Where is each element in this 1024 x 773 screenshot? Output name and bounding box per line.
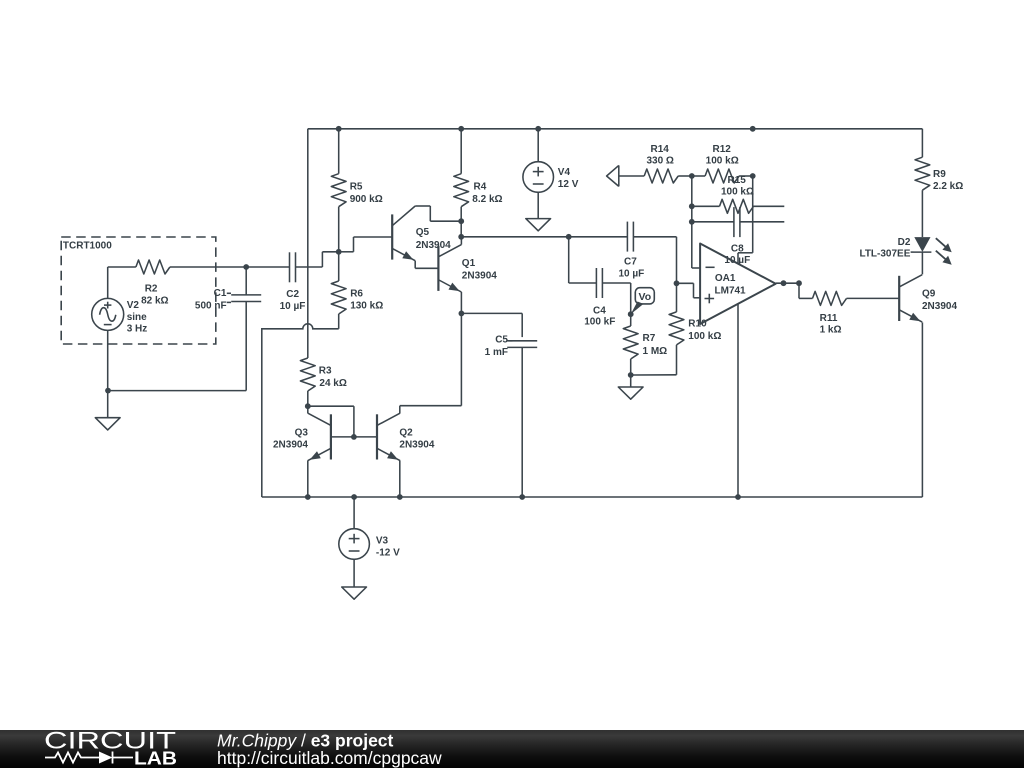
svg-text:R15: R15 xyxy=(728,175,747,186)
svg-text:100 kF: 100 kF xyxy=(584,317,615,328)
svg-text:C4: C4 xyxy=(593,306,606,317)
svg-text:2N3904: 2N3904 xyxy=(416,240,451,251)
svg-text:Q1: Q1 xyxy=(462,258,476,269)
svg-text:Q9: Q9 xyxy=(922,288,936,299)
svg-text:R9: R9 xyxy=(933,169,946,180)
svg-text:C5: C5 xyxy=(495,335,508,346)
svg-text:100 kΩ: 100 kΩ xyxy=(721,186,754,197)
svg-text:R11: R11 xyxy=(820,313,838,324)
svg-text:R5: R5 xyxy=(350,181,363,192)
svg-text:LAB: LAB xyxy=(134,748,177,769)
svg-text:V2: V2 xyxy=(127,300,140,311)
svg-text:Vo: Vo xyxy=(638,291,651,303)
svg-text:R12: R12 xyxy=(713,144,732,155)
svg-text:10 µF: 10 µF xyxy=(280,301,306,312)
svg-text:C2: C2 xyxy=(286,289,299,300)
svg-text:V3: V3 xyxy=(376,536,389,547)
svg-text:R4: R4 xyxy=(474,181,487,192)
svg-text:R7: R7 xyxy=(643,333,656,344)
svg-text:100 kΩ: 100 kΩ xyxy=(706,155,739,166)
svg-text:82 kΩ: 82 kΩ xyxy=(141,296,168,307)
svg-text:2.2 kΩ: 2.2 kΩ xyxy=(933,181,963,192)
svg-text:24 kΩ: 24 kΩ xyxy=(319,378,346,389)
svg-text:Q5: Q5 xyxy=(416,227,430,238)
svg-text:8.2 kΩ: 8.2 kΩ xyxy=(472,194,502,205)
svg-text:sine: sine xyxy=(127,312,147,323)
svg-text:1 MΩ: 1 MΩ xyxy=(643,346,668,357)
svg-text:R6: R6 xyxy=(350,288,363,299)
svg-text:Q3: Q3 xyxy=(295,428,309,439)
svg-text:R10: R10 xyxy=(688,319,707,330)
svg-text:OA1: OA1 xyxy=(715,273,736,284)
svg-text:500 nF: 500 nF xyxy=(195,300,227,311)
svg-text:330 Ω: 330 Ω xyxy=(646,155,673,166)
svg-text:2N3904: 2N3904 xyxy=(399,439,434,450)
svg-text:C7: C7 xyxy=(624,257,637,268)
svg-text:1 mF: 1 mF xyxy=(485,347,508,358)
svg-text:Q2: Q2 xyxy=(399,428,413,439)
svg-text:1 kΩ: 1 kΩ xyxy=(820,325,842,336)
svg-text:http://circuitlab.com/cpgpcaw: http://circuitlab.com/cpgpcaw xyxy=(217,748,442,768)
svg-text:LTL-307EE: LTL-307EE xyxy=(859,248,910,259)
svg-text:LM741: LM741 xyxy=(715,286,747,297)
svg-text:10 µF: 10 µF xyxy=(619,268,645,279)
svg-text:130 kΩ: 130 kΩ xyxy=(350,301,383,312)
svg-text:V4: V4 xyxy=(558,167,571,178)
svg-text:R2: R2 xyxy=(145,283,158,294)
svg-text:R14: R14 xyxy=(651,144,670,155)
svg-text:2N3904: 2N3904 xyxy=(273,439,308,450)
svg-text:-12 V: -12 V xyxy=(376,548,400,559)
svg-text:D2: D2 xyxy=(898,237,911,248)
svg-text:12 V: 12 V xyxy=(558,179,579,190)
svg-text:3 Hz: 3 Hz xyxy=(127,324,148,335)
svg-text:2N3904: 2N3904 xyxy=(462,271,497,282)
svg-text:2N3904: 2N3904 xyxy=(922,301,957,312)
svg-text:900 kΩ: 900 kΩ xyxy=(350,194,383,205)
svg-text:100 kΩ: 100 kΩ xyxy=(688,331,721,342)
svg-text:C1: C1 xyxy=(214,288,227,299)
svg-text:R3: R3 xyxy=(319,366,332,377)
svg-text:TCRT1000: TCRT1000 xyxy=(63,241,112,252)
